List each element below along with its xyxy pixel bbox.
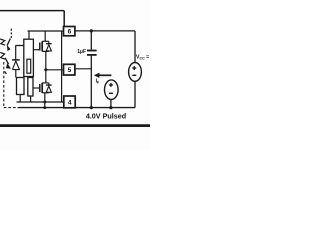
- svg-text:4: 4: [68, 99, 72, 106]
- svg-text:4.0V Pulsed: 4.0V Pulsed: [86, 112, 126, 121]
- svg-text:6: 6: [68, 29, 72, 36]
- svg-text:5: 5: [68, 67, 72, 74]
- svg-text:VCC = 1: VCC = 1: [136, 55, 150, 61]
- svg-text:1µF: 1µF: [77, 49, 86, 55]
